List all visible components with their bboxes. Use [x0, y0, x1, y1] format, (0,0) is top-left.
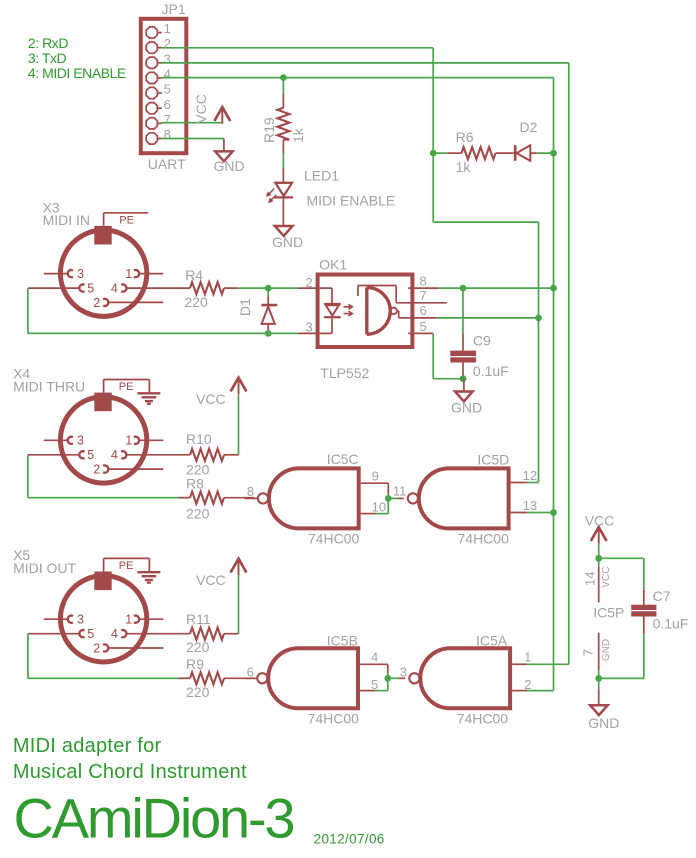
wire IC5D pin 13	[511, 512, 527, 514]
svg-text:1: 1	[125, 267, 132, 281]
svg-text:74HC00: 74HC00	[308, 531, 360, 547]
wire OK1 pin 8 net	[438, 287, 553, 289]
svg-text:220: 220	[186, 639, 210, 655]
junction GND node	[595, 675, 602, 682]
wire RxD from JP1 pin 2	[162, 47, 434, 49]
wire IC5B inputs bracket	[360, 663, 388, 665]
svg-text:2: 2	[93, 463, 100, 477]
junction D2 right	[550, 150, 557, 157]
svg-text:0.1uF: 0.1uF	[653, 616, 689, 632]
svg-text:PE: PE	[119, 560, 134, 572]
LED LED1	[282, 168, 284, 182]
wire D2 to MIDI ENABLE line	[537, 152, 553, 154]
svg-text:LED1: LED1	[304, 168, 339, 184]
wire R11 up to VCC	[238, 575, 240, 634]
wire VCC to C7	[599, 557, 644, 559]
junction IC5B inputs	[384, 675, 391, 682]
svg-text:1: 1	[125, 434, 132, 448]
wire RxD vertical	[432, 48, 434, 222]
svg-text:IC5P: IC5P	[593, 604, 624, 620]
svg-text:PE: PE	[119, 381, 134, 393]
junction pin13-ME	[550, 509, 557, 516]
svg-text:3: 3	[77, 267, 84, 281]
ground GND below LED1	[275, 226, 293, 236]
svg-text:2: 2	[305, 275, 312, 290]
wire R4 to OK1 pin 2	[238, 287, 298, 289]
svg-text:D2: D2	[520, 119, 538, 135]
svg-text:14: 14	[582, 572, 597, 586]
IC5P power pins	[598, 558, 600, 567]
power VCC at JP1	[221, 108, 223, 124]
svg-text:GND: GND	[451, 400, 482, 416]
svg-text:1k: 1k	[456, 159, 472, 175]
gate IC5C 74HC00	[269, 468, 361, 528]
svg-text:1: 1	[125, 613, 132, 627]
wire R19 top	[282, 78, 284, 94]
wire JP1 pin 7 to VCC	[162, 122, 223, 124]
wire to OK1 pin 3	[28, 332, 298, 334]
svg-text:IC5C: IC5C	[327, 451, 359, 467]
wire TxD vertical	[568, 63, 570, 665]
optocoupler OK1 TLP552	[318, 275, 413, 348]
wire RxD down to gates	[538, 222, 540, 482]
svg-text:5: 5	[87, 282, 94, 296]
svg-text:IC5B: IC5B	[327, 632, 358, 648]
junction C9 top	[460, 285, 467, 292]
svg-text:6: 6	[420, 303, 427, 318]
connector X3 MIDI IN DIN socket	[60, 230, 146, 316]
svg-text:74HC00: 74HC00	[457, 710, 509, 726]
resistor R10	[127, 454, 190, 456]
wire IC5A pin 1	[512, 663, 527, 665]
svg-text:MIDI ENABLE: MIDI ENABLE	[307, 193, 396, 209]
svg-text:R4: R4	[185, 267, 203, 283]
wire OK1 pin 6 net	[436, 317, 538, 319]
svg-text:0.1uF: 0.1uF	[473, 363, 509, 379]
wire IC5D pin 12	[511, 482, 527, 484]
svg-text:2: 2	[524, 677, 531, 692]
svg-text:GND: GND	[272, 234, 303, 250]
svg-text:C9: C9	[473, 332, 491, 348]
svg-text:10: 10	[372, 500, 386, 515]
svg-text:4: 4	[111, 282, 118, 296]
gate IC5B 74HC00	[268, 648, 360, 708]
svg-text:VCC: VCC	[196, 572, 226, 588]
PE earth of X4	[103, 380, 105, 393]
junction pin6-RxD	[535, 315, 542, 322]
svg-text:OK1: OK1	[319, 256, 347, 272]
svg-text:220: 220	[186, 506, 210, 522]
svg-text:R11: R11	[186, 611, 211, 627]
capacitor C7	[643, 589, 645, 605]
svg-text:4: 4	[111, 627, 118, 641]
gate IC5A 74HC00	[420, 648, 512, 708]
resistor R9	[179, 677, 190, 679]
svg-text:IC5D: IC5D	[477, 452, 509, 468]
wire pin 3 net	[388, 677, 399, 679]
svg-text:IC5A: IC5A	[476, 632, 508, 648]
svg-text:3: TxD: 3: TxD	[28, 50, 67, 66]
capacitor C9	[462, 288, 464, 334]
junction IC5C inputs	[385, 495, 392, 502]
wire R19 to LED1	[282, 153, 284, 168]
svg-text:7: 7	[164, 112, 171, 127]
svg-text:6: 6	[164, 97, 171, 112]
svg-text:D1: D1	[237, 298, 253, 316]
svg-text:4: 4	[111, 448, 118, 462]
wire R10 up to VCC	[238, 394, 240, 455]
svg-text:R9: R9	[186, 656, 204, 672]
svg-text:2: 2	[164, 36, 171, 51]
svg-text:1: 1	[524, 650, 531, 665]
connector X4 MIDI THRU DIN socket	[60, 397, 146, 483]
resistor R4	[127, 287, 190, 289]
svg-text:9: 9	[372, 468, 379, 483]
svg-text:UART: UART	[148, 156, 186, 172]
junction C9 bottom	[460, 375, 467, 382]
svg-text:TLP552: TLP552	[320, 365, 369, 381]
PE earth of X5	[103, 558, 105, 571]
wire X3 pin5 left drop	[27, 288, 29, 333]
svg-text:8: 8	[164, 127, 171, 142]
svg-text:VCC: VCC	[585, 513, 615, 529]
gate IC5D 74HC00	[419, 468, 511, 528]
svg-text:GND: GND	[214, 158, 245, 174]
svg-text:R10: R10	[186, 431, 212, 447]
svg-text:2: 2	[93, 296, 100, 310]
svg-text:VCC: VCC	[193, 94, 209, 124]
svg-text:5: 5	[87, 627, 94, 641]
svg-text:CAmiDion-3: CAmiDion-3	[14, 787, 294, 850]
wire MIDI ENABLE from JP1 pin 4	[162, 77, 554, 79]
svg-text:5: 5	[87, 448, 94, 462]
resistor R19	[282, 93, 284, 108]
svg-text:MIDI OUT: MIDI OUT	[13, 560, 76, 576]
svg-text:7: 7	[581, 649, 596, 656]
svg-text:5: 5	[371, 677, 378, 692]
svg-text:220: 220	[186, 684, 210, 700]
svg-text:220: 220	[184, 294, 208, 310]
ground GND below C9	[463, 379, 465, 392]
wire RxD horizontal jog	[433, 221, 538, 223]
svg-text:3: 3	[164, 51, 171, 66]
diode D1	[267, 288, 269, 296]
power VCC at IC5P	[598, 528, 600, 544]
wire X5 pin5 to R9	[28, 677, 179, 679]
svg-text:3: 3	[400, 665, 407, 680]
svg-text:7: 7	[420, 288, 427, 303]
junction R6 left	[430, 150, 437, 157]
svg-text:MIDI adapter for: MIDI adapter for	[13, 735, 162, 757]
svg-text:3: 3	[77, 613, 84, 627]
ground GND below IC5P	[598, 678, 600, 689]
junction R19 tap	[280, 74, 287, 81]
wire OK1 pin 5 down	[432, 333, 434, 378]
wire IC5C inputs bracket	[361, 482, 389, 484]
power VCC at X4	[238, 378, 240, 394]
wire VCC to junction	[598, 544, 600, 559]
wire MIDI ENABLE vertical	[553, 78, 555, 691]
svg-text:VCC: VCC	[196, 391, 226, 407]
wire R6 left stub	[433, 152, 447, 154]
PE stub of X3	[103, 213, 105, 226]
wire X4 pin5 left drop	[27, 455, 29, 498]
svg-text:5: 5	[420, 319, 427, 334]
resistor R11	[127, 633, 190, 635]
wire IC5A pin 2	[512, 690, 527, 692]
wire TxD from JP1 pin 3	[162, 62, 569, 64]
junction D1 bottom	[265, 330, 272, 337]
svg-text:11: 11	[393, 484, 407, 499]
svg-text:74HC00: 74HC00	[458, 531, 510, 547]
wire JP1 pin 8 to GND	[162, 138, 224, 140]
svg-text:6: 6	[247, 665, 254, 680]
junction VCC node	[595, 555, 602, 562]
ground GND at JP1	[223, 139, 225, 152]
svg-text:2012/07/06: 2012/07/06	[314, 832, 385, 847]
svg-text:JP1: JP1	[162, 1, 186, 17]
svg-text:Musical Chord Instrument: Musical Chord Instrument	[13, 761, 247, 783]
svg-text:4: MIDI ENABLE: 4: MIDI ENABLE	[28, 65, 126, 81]
svg-text:13: 13	[523, 498, 537, 513]
svg-text:MIDI IN: MIDI IN	[43, 212, 90, 228]
svg-text:1k: 1k	[290, 127, 306, 143]
svg-text:8: 8	[247, 484, 254, 499]
diode D2	[514, 145, 517, 161]
connector JP1 8-pin header	[141, 19, 187, 153]
svg-text:R19: R19	[261, 117, 277, 143]
svg-text:GND: GND	[601, 639, 612, 661]
svg-text:GND: GND	[588, 715, 619, 731]
wire pin 11 net	[388, 497, 398, 499]
svg-text:8: 8	[420, 273, 427, 288]
svg-text:3: 3	[305, 320, 312, 335]
resistor R8	[179, 497, 190, 499]
wire X5 pin5 left drop	[27, 634, 29, 679]
resistor R6	[448, 152, 462, 154]
junction pin8-ME	[550, 285, 557, 292]
svg-text:4: 4	[371, 650, 378, 665]
svg-text:74HC00: 74HC00	[308, 710, 360, 726]
svg-text:12: 12	[523, 468, 537, 483]
svg-text:VCC: VCC	[601, 567, 612, 588]
svg-text:R6: R6	[456, 129, 474, 145]
connector X5 MIDI OUT DIN socket	[60, 576, 146, 662]
svg-text:2: RxD: 2: RxD	[28, 35, 68, 51]
svg-text:C7: C7	[653, 588, 671, 604]
wire OK1 pin 5 to GND node	[433, 378, 463, 380]
svg-text:1: 1	[164, 21, 171, 36]
svg-text:MIDI THRU: MIDI THRU	[13, 379, 85, 395]
svg-text:PE: PE	[119, 215, 134, 227]
wire X4 pin5 to R8	[28, 497, 179, 499]
junction D1 top	[265, 285, 272, 292]
svg-text:3: 3	[77, 434, 84, 448]
svg-text:4: 4	[164, 67, 171, 82]
power VCC at X5	[238, 559, 240, 575]
svg-text:R8: R8	[186, 476, 204, 492]
svg-text:2: 2	[93, 641, 100, 655]
svg-text:5: 5	[164, 82, 171, 97]
